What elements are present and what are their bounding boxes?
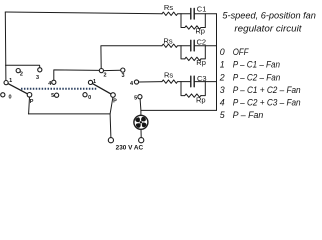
switch1 contact 5 [55, 93, 59, 97]
wiper switch 1 [8, 84, 27, 94]
wire down to left AC terminal [109, 114, 112, 138]
svg-text:P – C1 – Fan: P – C1 – Fan [233, 60, 280, 70]
capacitor C2 plates [191, 40, 194, 51]
svg-text:P: P [113, 99, 117, 105]
svg-text:5: 5 [51, 93, 54, 99]
wire contact 5 sw2 down to fan node [139, 99, 142, 111]
legend row 0 [219, 47, 301, 120]
svg-text:0: 0 [88, 95, 91, 101]
switch2 contact 3 [121, 68, 125, 72]
wire bus bottom horizontal to fan node [141, 109, 217, 111]
wiper switch 2 [92, 83, 111, 94]
wire C1 out to bus [205, 13, 216, 15]
wire C3 network bottom branch [181, 82, 205, 96]
svg-text:Rp: Rp [196, 58, 206, 67]
svg-text:C3: C3 [197, 74, 207, 83]
wire C1 network bottom branch [181, 14, 205, 28]
svg-text:regulator circuit: regulator circuit [234, 24, 302, 34]
wire C2 network top branch [181, 45, 205, 47]
svg-text:2: 2 [20, 72, 23, 78]
wire pole P2 drop [110, 97, 113, 114]
svg-text:1: 1 [9, 78, 12, 84]
wire fan top stem [140, 110, 142, 115]
svg-text:P – Fan: P – Fan [233, 110, 264, 120]
wire left vertical to contact 1 [4, 12, 7, 80]
svg-text:3: 3 [220, 85, 225, 95]
switch1 contact 1 [4, 81, 8, 85]
resistor Rp3 [185, 94, 202, 97]
wire contact 4 sw2 to Rs3 [139, 81, 162, 83]
wire bottom poles horizontal [28, 113, 110, 115]
resistor Rs3 [162, 80, 181, 83]
capacitor C3 plates [191, 76, 194, 87]
switch1 contact 4 [52, 80, 56, 84]
wire bus vertical right [216, 14, 218, 111]
svg-text:2: 2 [103, 72, 106, 78]
wire fan bottom stem [140, 129, 142, 137]
svg-text:1: 1 [93, 79, 96, 85]
svg-text:5-speed, 6-position fan: 5-speed, 6-position fan [222, 10, 316, 20]
wire C2 out to bus [205, 45, 216, 47]
wire C2 network bottom branch [181, 46, 205, 59]
svg-text:P – C1 + C2 – Fan: P – C1 + C2 – Fan [233, 85, 301, 95]
switch2 contact 5 [138, 95, 142, 99]
wire contact 2 sw2 riser to Rs2 [101, 46, 162, 69]
svg-text:3: 3 [121, 73, 124, 79]
gang coupling dotted line [21, 88, 96, 90]
svg-text:OFF: OFF [233, 47, 249, 57]
capacitor C1 plates [191, 8, 194, 19]
svg-text:Rp: Rp [196, 96, 206, 105]
svg-text:1: 1 [220, 60, 225, 70]
wire link contacts 2-3 of switch 2 [104, 69, 121, 71]
wire C3 network top branch [181, 81, 205, 83]
resistor Rp1 [185, 26, 202, 29]
svg-text:P – C2 + C3 – Fan: P – C2 + C3 – Fan [233, 98, 301, 108]
wire C1 network top branch [181, 13, 205, 15]
svg-text:4: 4 [220, 98, 225, 108]
svg-text:Rs: Rs [164, 71, 173, 80]
svg-text:P – C2 – Fan: P – C2 – Fan [233, 72, 281, 82]
switch1 contact 2 [16, 69, 20, 73]
AC terminal right [139, 138, 144, 143]
AC terminal left [108, 138, 113, 143]
switch2 contact 1 [88, 80, 92, 84]
switch2 contact 2 [99, 69, 103, 73]
resistor Rs2 [162, 44, 181, 47]
svg-text:3: 3 [36, 75, 39, 81]
svg-text:230 V AC: 230 V AC [116, 144, 144, 151]
svg-text:5: 5 [220, 110, 225, 120]
resistor Rp2 [185, 57, 202, 60]
svg-text:Rs: Rs [164, 3, 173, 12]
wire pole P1 drop [28, 97, 31, 114]
wire C3 out to bus [205, 81, 216, 83]
svg-text:P: P [30, 99, 34, 105]
svg-text:5: 5 [134, 95, 137, 101]
wire top from switch1 contact1 riser to Rs1 [5, 12, 162, 14]
wire contact 4 sw1 to contact 2 sw2 [54, 70, 99, 80]
switch2 pole P [111, 93, 116, 98]
resistor Rs1 [162, 12, 181, 15]
switch2 contact 4 [134, 80, 138, 84]
switch2 contact 0 [83, 93, 87, 97]
switch1 contact 0 [1, 93, 5, 97]
fan M1 [134, 115, 148, 129]
wire to contact 3 of switch 1 [6, 65, 40, 67]
svg-text:Rs: Rs [163, 36, 172, 45]
svg-text:4: 4 [130, 81, 134, 87]
svg-text:C1: C1 [197, 5, 207, 14]
svg-text:Rp: Rp [195, 27, 205, 36]
svg-text:C2: C2 [197, 37, 207, 46]
switch1 contact 3 [38, 68, 42, 72]
svg-text:0: 0 [8, 95, 11, 101]
switch1 pole P [27, 93, 32, 98]
svg-text:2: 2 [219, 72, 225, 82]
svg-text:0: 0 [220, 47, 225, 57]
